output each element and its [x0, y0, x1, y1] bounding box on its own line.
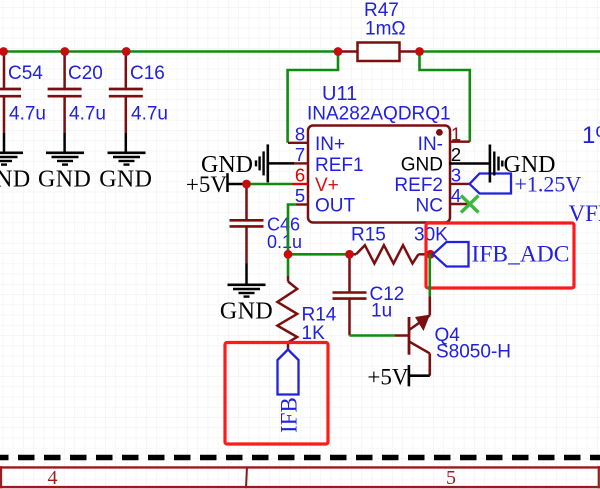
svg-text:GND: GND	[504, 152, 556, 178]
svg-text:6: 6	[295, 165, 305, 186]
svg-text:IN+: IN+	[315, 134, 345, 155]
power flag +5V (Q4)	[367, 365, 429, 390]
svg-text:7: 7	[295, 144, 305, 165]
pin 6 V+	[292, 165, 339, 196]
net flag IFB_ADC	[433, 242, 569, 268]
svg-text:GND: GND	[0, 167, 31, 193]
svg-text:5: 5	[446, 467, 456, 489]
wire top rail right	[420, 50, 600, 53]
resistor R14	[277, 276, 336, 350]
svg-text:+5V: +5V	[186, 172, 227, 197]
net flag IFB	[277, 350, 302, 434]
svg-text:NC: NC	[416, 195, 443, 216]
svg-text:R15: R15	[351, 225, 386, 246]
svg-text:GND: GND	[38, 167, 91, 193]
wire node to Q4 emitter	[428, 254, 431, 296]
pin 1 IN-	[418, 124, 470, 155]
svg-text:GND: GND	[99, 167, 152, 193]
resistor R47	[338, 0, 420, 61]
power flag +5V (pin 6)	[186, 172, 247, 197]
junction dots top rail	[0, 47, 8, 56]
pin 2 GND	[401, 144, 490, 175]
svg-text:C16: C16	[130, 63, 165, 84]
svg-text:S8050-H: S8050-H	[436, 342, 511, 363]
wire R14 top	[287, 254, 290, 276]
svg-text:GND: GND	[401, 154, 443, 175]
capacitor C46	[230, 184, 303, 264]
pin 3 REF2	[394, 165, 469, 196]
svg-text:+5V: +5V	[367, 365, 408, 390]
ground (C46)	[220, 264, 273, 325]
svg-text:4.7u: 4.7u	[69, 104, 106, 125]
svg-text:1u: 1u	[371, 301, 392, 322]
svg-text:U11: U11	[322, 83, 357, 105]
wire pin5 OUT down to node	[288, 205, 296, 255]
svg-text:1mΩ: 1mΩ	[365, 19, 406, 40]
svg-text:GND: GND	[220, 299, 273, 325]
svg-text:4: 4	[451, 185, 461, 206]
svg-text:INA282AQDRQ1: INA282AQDRQ1	[307, 104, 451, 125]
wire +5V to pin6	[247, 183, 293, 186]
svg-text:IN-: IN-	[418, 134, 443, 155]
resistor R15	[350, 225, 449, 264]
svg-text:8: 8	[295, 124, 305, 145]
ground (C16)	[99, 133, 152, 193]
highlight box IFB	[225, 343, 328, 445]
svg-text:OUT: OUT	[315, 195, 356, 216]
no-connect X (pin 4)	[461, 196, 479, 213]
wire R47 left to pin8	[288, 52, 338, 143]
svg-text:V+: V+	[315, 175, 339, 196]
ground (C54)	[0, 133, 31, 193]
junction dots mid row	[284, 250, 293, 259]
op-amp U11 INA282AQDRQ1	[307, 83, 451, 223]
svg-text:1K: 1K	[302, 323, 326, 344]
svg-text:IFB_ADC: IFB_ADC	[472, 242, 570, 268]
svg-text:4.7u: 4.7u	[9, 104, 46, 125]
highlight box IFB_ADC	[426, 223, 574, 288]
capacitor C12	[333, 254, 405, 335]
svg-text:1%: 1%	[582, 122, 600, 149]
ground (pin 7)	[201, 144, 294, 182]
sheet frame	[0, 466, 600, 489]
pin 5 OUT	[295, 185, 356, 216]
ground (C20)	[38, 133, 91, 193]
svg-text:5: 5	[295, 185, 305, 206]
svg-text:2: 2	[451, 144, 461, 165]
capacitor C16	[109, 52, 168, 134]
svg-text:1: 1	[451, 124, 461, 145]
svg-text:4.7u: 4.7u	[131, 104, 168, 125]
wire R47 right to pin1	[420, 52, 470, 142]
capacitor C20	[48, 52, 106, 134]
pin 7 REF1	[294, 144, 364, 176]
svg-text:C54: C54	[8, 63, 43, 84]
capacitor C54	[0, 52, 46, 134]
svg-text:REF2: REF2	[394, 175, 443, 196]
transistor Q4 S8050-H	[409, 297, 511, 376]
pin 8 IN+	[288, 124, 345, 155]
svg-text:0.1u: 0.1u	[267, 232, 302, 252]
svg-text:REF1: REF1	[315, 155, 364, 176]
svg-text:30K: 30K	[414, 225, 448, 246]
net flag +1.25V (pin 3)	[470, 172, 582, 197]
ground (pin 2)	[490, 145, 556, 183]
svg-text:IFB: IFB	[277, 397, 302, 433]
svg-text:C20: C20	[68, 63, 103, 84]
wire C12 bottom to Q4 base	[350, 334, 396, 337]
svg-text:3: 3	[451, 165, 461, 186]
svg-text:4: 4	[48, 467, 58, 489]
wire node to R15	[288, 253, 350, 256]
svg-text:VFB: VFB	[569, 201, 600, 226]
pin 4 NC	[416, 185, 470, 216]
junction dot C46 top	[242, 180, 251, 189]
wire top rail left	[0, 50, 338, 53]
dashed sheet boundary	[0, 455, 600, 461]
